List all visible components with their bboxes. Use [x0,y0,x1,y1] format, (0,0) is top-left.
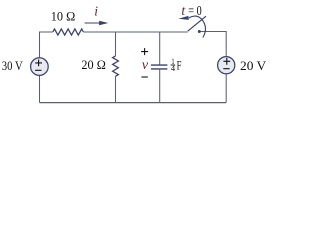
svg-text:4: 4 [171,63,176,73]
svg-text:20 Ω: 20 Ω [81,58,105,72]
svg-text:10 Ω: 10 Ω [51,9,76,23]
svg-text:= 0: = 0 [188,3,202,18]
svg-text:v: v [142,58,149,73]
svg-text:F: F [177,57,182,72]
svg-text:i: i [94,4,98,19]
svg-text:30 V: 30 V [2,59,23,73]
svg-text:t: t [181,3,186,18]
svg-text:20 V: 20 V [240,59,266,73]
